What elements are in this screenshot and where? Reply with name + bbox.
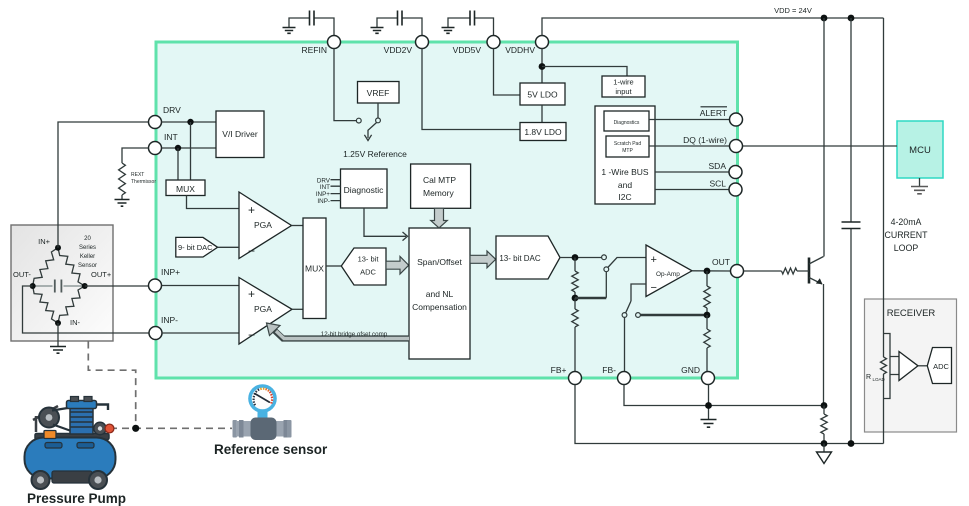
block Cal MTP Memory	[411, 164, 471, 208]
node bridge bottom	[55, 320, 61, 326]
resistor Rload	[866, 357, 887, 382]
wire VDD5V to 5V LDO	[494, 49, 521, 96]
pin OUT	[712, 257, 743, 278]
svg-text:1 -Wire BUS: 1 -Wire BUS	[601, 167, 649, 177]
resistor R base	[744, 268, 810, 274]
block V/I Driver	[216, 111, 264, 158]
svg-text:LOAD: LOAD	[873, 377, 886, 382]
resistor R3 feedback top	[704, 271, 710, 315]
wire INT to V/I Driver	[162, 147, 217, 149]
wire INT to MUX	[177, 148, 179, 180]
switch 1.25V reference select	[356, 118, 380, 141]
node Diagnostic inputs	[316, 178, 341, 206]
svg-text:MCU: MCU	[909, 145, 931, 156]
svg-text:OUT+: OUT+	[91, 270, 112, 279]
block MCU	[897, 121, 943, 178]
wire INT to REXT	[122, 148, 149, 163]
resistor R4 feedback bottom	[704, 315, 710, 372]
block 1-wire input	[602, 76, 645, 97]
svg-text:SCL: SCL	[709, 179, 726, 189]
pin GND	[681, 365, 714, 385]
svg-text:1.8V LDO: 1.8V LDO	[524, 127, 562, 137]
node bridge right	[82, 283, 88, 289]
svg-text:IN+: IN+	[38, 237, 51, 246]
svg-text:LOOP: LOOP	[894, 243, 919, 253]
node out junction	[704, 268, 711, 275]
wire REFIN to reference switch	[334, 49, 356, 121]
svg-text:Thermissor: Thermissor	[131, 179, 156, 185]
svg-text:VDD5V: VDD5V	[453, 45, 482, 55]
svg-text:INP+: INP+	[316, 191, 330, 198]
op-amp PGA2	[239, 278, 292, 345]
svg-text:ALERT: ALERT	[700, 108, 727, 118]
svg-text:ADC: ADC	[360, 268, 376, 277]
svg-text:VDD = 24V: VDD = 24V	[774, 6, 812, 15]
svg-text:VDDHV: VDDHV	[505, 45, 535, 55]
ground sensor	[50, 347, 66, 354]
svg-text:Diagnostics: Diagnostics	[614, 120, 640, 126]
svg-text:Keller: Keller	[80, 254, 95, 260]
transistor Q1	[809, 257, 824, 285]
reference sensor illustration	[233, 384, 292, 440]
node junction cap	[848, 15, 855, 22]
svg-text:FB-: FB-	[602, 365, 616, 375]
svg-text:and: and	[618, 180, 632, 190]
block 9-bit DAC	[176, 237, 218, 257]
wire FB+ to loop bottom	[575, 385, 884, 444]
svg-text:OUT: OUT	[712, 257, 730, 267]
svg-text:Scratch Pad: Scratch Pad	[614, 141, 641, 147]
wire junction to 1-wire input	[542, 67, 627, 77]
svg-text:+: +	[248, 287, 255, 301]
op-amp receiver	[899, 352, 918, 381]
wire VDD2V to 1.8V LDO	[422, 49, 520, 130]
block RECEIVER	[865, 299, 957, 432]
node GND junction	[705, 402, 712, 409]
svg-text:FB+: FB+	[551, 365, 567, 375]
IC boundary	[156, 42, 738, 378]
arrow Span to DAC	[470, 251, 496, 268]
block Diagnostic	[341, 169, 388, 208]
resistor R5 emitter	[821, 406, 827, 444]
arrow Cal MTP to Span	[431, 208, 448, 228]
wire collector riser	[823, 18, 825, 257]
svg-text:−: −	[651, 282, 657, 294]
svg-text:+: +	[651, 254, 657, 266]
pin SCL	[709, 179, 742, 197]
svg-text:Sensor: Sensor	[78, 263, 97, 269]
svg-text:INT: INT	[320, 184, 330, 191]
svg-text:SDA: SDA	[709, 161, 727, 171]
wire FB- riser	[624, 318, 626, 372]
node bridge top	[55, 245, 61, 251]
svg-text:Pressure Pump: Pressure Pump	[27, 491, 126, 506]
svg-text:1-wire: 1-wire	[613, 78, 633, 87]
svg-text:INP-: INP-	[317, 198, 330, 205]
wire dashed to pump and reference sensor	[110, 427, 232, 429]
wire receiver bracket	[884, 334, 900, 399]
node feedback mid	[704, 312, 711, 319]
svg-text:Memory: Memory	[423, 188, 454, 198]
svg-text:REFIN: REFIN	[302, 45, 328, 55]
svg-text:12-bit bridge ofset comp: 12-bit bridge ofset comp	[321, 331, 388, 338]
capacitor bridge center	[33, 280, 85, 293]
svg-text:Diagnostic: Diagnostic	[344, 185, 384, 195]
svg-text:INP+: INP+	[161, 267, 180, 277]
pin FB+	[551, 365, 582, 385]
wire op-amp out	[692, 270, 731, 272]
switch op-amp plus select	[575, 255, 646, 298]
node loop bottom junction	[821, 440, 828, 447]
svg-text:INP-: INP-	[161, 315, 178, 325]
wire MUX to PGA	[187, 196, 240, 209]
block MUX main	[303, 218, 326, 319]
svg-text:Reference sensor: Reference sensor	[214, 442, 328, 457]
resistor bridge arm right-bottom	[58, 286, 85, 323]
svg-text:13- bit DAC: 13- bit DAC	[499, 254, 541, 263]
wire DRV to MUX	[190, 122, 192, 180]
block 5V LDO	[520, 83, 565, 105]
wire VREF to switch	[377, 103, 379, 118]
pin SDA	[709, 161, 742, 179]
resistor R2 divider bottom	[572, 298, 578, 372]
svg-text:IN-: IN-	[70, 318, 81, 327]
svg-text:R: R	[866, 374, 871, 381]
ground	[371, 28, 384, 34]
svg-text:RECEIVER: RECEIVER	[887, 308, 936, 319]
svg-text:V/I Driver: V/I Driver	[222, 129, 258, 139]
pin DRV	[149, 105, 182, 129]
wire DAC to PGA1	[218, 246, 239, 248]
pin VDDHV	[505, 36, 548, 56]
capacitor C4 (loop)	[842, 18, 861, 444]
svg-text:Series: Series	[79, 245, 96, 251]
svg-text:REXT: REXT	[131, 172, 144, 178]
wire op-amp minus input	[631, 284, 646, 301]
svg-text:DQ (1-wire): DQ (1-wire)	[683, 135, 727, 145]
svg-text:and NL: and NL	[426, 289, 454, 299]
node 4-20mA CURRENT LOOP label	[884, 217, 928, 253]
pressure pump illustration	[25, 397, 116, 490]
block VREF	[358, 82, 400, 104]
switch op-amp minus select	[622, 301, 707, 317]
svg-text:9- bit DAC: 9- bit DAC	[178, 243, 213, 252]
block 20 Series Keller Sensor	[11, 225, 113, 341]
node divider mid	[572, 295, 579, 302]
wire DAC out	[560, 257, 602, 259]
op-amp PGA1	[239, 192, 292, 259]
capacitor C3 (VDD5V bypass)	[448, 11, 494, 36]
svg-text:MTP: MTP	[622, 148, 633, 154]
resistor bridge arm top-left	[33, 248, 58, 286]
resistor R1 divider top	[572, 258, 578, 299]
capacitor C2 (VDD2V bypass)	[377, 11, 422, 36]
block MUX input	[166, 180, 205, 196]
wire dashed pressure path	[88, 342, 135, 427]
svg-text:I2C: I2C	[618, 192, 631, 202]
pin REFIN	[302, 36, 341, 56]
svg-text:DRV: DRV	[163, 105, 181, 115]
wire SCL	[655, 189, 729, 191]
wire PGA1 out	[292, 225, 304, 227]
svg-text:Cal MTP: Cal MTP	[423, 175, 456, 185]
wire IN- to ground	[57, 323, 59, 346]
svg-text:4-20mA: 4-20mA	[891, 217, 922, 227]
svg-text:INT: INT	[164, 132, 178, 142]
svg-text:20: 20	[84, 236, 91, 242]
svg-text:input: input	[615, 87, 632, 96]
svg-text:MUX: MUX	[305, 264, 324, 274]
node DAC out junction	[572, 254, 579, 261]
svg-text:CURRENT: CURRENT	[884, 230, 928, 240]
resistor REXT thermistor	[119, 163, 157, 199]
wire INP+ to PGA2	[162, 285, 240, 287]
node pressure junction	[132, 425, 139, 432]
pin INP+	[149, 267, 181, 292]
svg-text:+: +	[248, 203, 255, 217]
wire OUT- loop to INP-	[23, 286, 149, 333]
svg-text:PGA: PGA	[254, 220, 272, 230]
wire DRV to V/I Driver	[162, 121, 217, 123]
block 1.8V LDO	[520, 123, 566, 141]
ground	[283, 28, 296, 34]
svg-text:Span/Offset: Span/Offset	[417, 257, 462, 267]
arrow ADC to Span	[386, 257, 409, 275]
block 13-bit DAC	[496, 236, 560, 279]
node INT junction	[175, 145, 181, 151]
svg-text:13- bit: 13- bit	[358, 255, 380, 264]
pin INT	[149, 132, 178, 155]
svg-text:Op-Amp: Op-Amp	[656, 271, 680, 278]
resistor bridge arm top-right	[58, 248, 85, 286]
pin DQ (1-wire)	[683, 135, 742, 153]
svg-text:ADC: ADC	[933, 362, 949, 371]
wire GND pin down	[708, 385, 710, 420]
wire MUX to ADC	[326, 265, 342, 267]
wire OUT+ to INP+	[85, 285, 149, 287]
block ADC receiver	[927, 348, 951, 384]
block Span/Offset	[409, 228, 470, 359]
wire emitter down	[823, 284, 825, 406]
node DRV junction	[187, 119, 193, 125]
wire amp to ADC	[918, 365, 928, 367]
wire loop right side	[883, 18, 885, 444]
node emitter junction	[821, 402, 828, 409]
wire Diagnostic to Span	[364, 208, 408, 241]
pin VDD5V	[453, 36, 500, 56]
resistor bridge arm left-bottom	[33, 286, 58, 323]
wire FB- GND rail	[624, 385, 824, 406]
svg-text:PGA: PGA	[254, 304, 272, 314]
svg-text:Compensation: Compensation	[412, 302, 467, 312]
svg-text:VDD2V: VDD2V	[384, 45, 413, 55]
svg-text:VREF: VREF	[367, 88, 390, 98]
pin INP-	[149, 315, 178, 340]
wire VDD 24V rail	[542, 18, 884, 36]
wire ALERT	[649, 119, 730, 121]
block 1-Wire BUS and I2C	[595, 106, 655, 204]
wire feedback bridge offset	[267, 323, 410, 339]
wire 5V LDO to 1.8V LDO	[541, 105, 543, 123]
node bridge left	[30, 283, 36, 289]
svg-text:GND: GND	[681, 365, 700, 375]
node cap bottom junction	[848, 440, 855, 447]
pin FB-	[602, 365, 630, 385]
ground REXT	[115, 200, 130, 207]
wire INP- to PGA2	[162, 332, 239, 334]
wire DQ to MCU	[743, 145, 898, 147]
block 13-bit ADC	[341, 248, 386, 285]
svg-text:5V LDO: 5V LDO	[527, 90, 558, 100]
wire SDA	[655, 171, 729, 173]
node junction collector	[821, 15, 828, 22]
wire PGA2 out	[292, 308, 303, 310]
svg-text:1.25V Reference: 1.25V Reference	[343, 149, 407, 159]
svg-text:OUT-: OUT-	[13, 270, 31, 279]
svg-text:−: −	[248, 328, 255, 342]
svg-text:MUX: MUX	[176, 184, 195, 194]
pin ALERT	[700, 107, 743, 126]
op-amp U1	[646, 245, 692, 297]
wire VDDHV to 5V LDO	[541, 49, 543, 84]
svg-text:−: −	[248, 244, 255, 258]
capacitor C1 (REFIN bypass)	[289, 11, 334, 36]
wire IN+ riser to DRV	[58, 122, 149, 248]
ground arrow loop	[817, 444, 832, 464]
wire DQ	[649, 145, 730, 147]
ground MCU	[911, 178, 928, 194]
node VDDHV-LDO junction	[539, 63, 546, 70]
ground GND pin	[701, 420, 717, 428]
pin VDD2V	[384, 36, 429, 56]
ground	[442, 28, 455, 34]
